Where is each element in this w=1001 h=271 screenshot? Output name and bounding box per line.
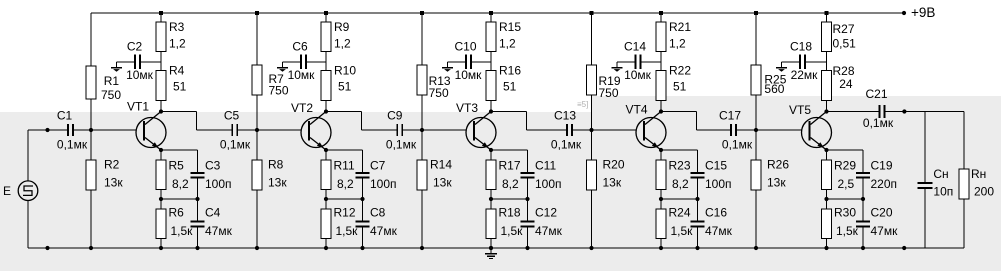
svg-text:0,1мк: 0,1мк (386, 137, 417, 151)
svg-text:47мк: 47мк (370, 224, 398, 238)
svg-text:C1: C1 (57, 109, 73, 123)
svg-text:560: 560 (764, 82, 784, 96)
svg-text:8,2: 8,2 (172, 177, 189, 191)
svg-text:VT5: VT5 (789, 103, 811, 117)
svg-text:Rн: Rн (971, 167, 986, 181)
svg-text:13к: 13к (433, 176, 452, 190)
svg-text:R1: R1 (104, 74, 120, 88)
svg-text:13к: 13к (767, 176, 786, 190)
svg-text:51: 51 (673, 79, 687, 93)
svg-text:R4: R4 (169, 64, 185, 78)
svg-text:10мк: 10мк (455, 68, 483, 82)
svg-text:R26: R26 (767, 158, 789, 172)
svg-text:2,5: 2,5 (838, 177, 855, 191)
svg-text:47мк: 47мк (205, 224, 233, 238)
svg-text:+9В: +9В (911, 5, 935, 20)
svg-text:8,2: 8,2 (502, 177, 519, 191)
svg-text:R21: R21 (669, 20, 691, 34)
svg-text:8,2: 8,2 (672, 177, 689, 191)
svg-text:1,5к: 1,5к (171, 224, 194, 238)
svg-text:1,5к: 1,5к (336, 224, 359, 238)
svg-text:C7: C7 (370, 158, 386, 172)
svg-text:750: 750 (269, 84, 289, 98)
svg-text:R9: R9 (334, 20, 350, 34)
svg-text:R27: R27 (833, 22, 855, 36)
svg-text:1,2: 1,2 (334, 36, 351, 50)
svg-text:Е: Е (3, 184, 11, 198)
svg-text:100п: 100п (205, 177, 232, 191)
svg-text:51: 51 (503, 79, 517, 93)
svg-text:R6: R6 (169, 206, 185, 220)
svg-text:0,1мк: 0,1мк (57, 137, 88, 151)
svg-text:R12: R12 (334, 206, 356, 220)
svg-text:0,1мк: 0,1мк (220, 137, 251, 151)
svg-text:1,2: 1,2 (169, 36, 186, 50)
svg-text:10мк: 10мк (126, 68, 154, 82)
svg-text:VT4: VT4 (626, 103, 648, 117)
svg-text:C19: C19 (871, 158, 893, 172)
svg-text:≡5]: ≡5] (577, 100, 588, 109)
svg-text:1,5к: 1,5к (836, 224, 859, 238)
svg-text:R3: R3 (169, 20, 185, 34)
svg-text:C21: C21 (865, 87, 887, 101)
svg-text:1,5к: 1,5к (671, 224, 694, 238)
svg-text:0,1мк: 0,1мк (551, 137, 582, 151)
svg-text:R23: R23 (669, 158, 691, 172)
svg-text:C12: C12 (535, 206, 557, 220)
svg-text:C18: C18 (790, 40, 812, 54)
svg-text:200: 200 (974, 185, 994, 199)
svg-text:C20: C20 (871, 206, 893, 220)
svg-text:24: 24 (839, 77, 853, 91)
svg-text:VT1: VT1 (127, 100, 149, 114)
svg-text:47мк: 47мк (535, 224, 563, 238)
svg-text:R16: R16 (499, 64, 521, 78)
svg-text:10мк: 10мк (288, 68, 316, 82)
svg-text:VT3: VT3 (456, 101, 478, 115)
svg-text:R30: R30 (834, 206, 856, 220)
svg-text:C4: C4 (205, 206, 221, 220)
svg-text:13к: 13к (603, 176, 622, 190)
svg-text:100п: 100п (705, 177, 732, 191)
svg-text:47мк: 47мк (871, 224, 899, 238)
svg-text:C6: C6 (292, 40, 308, 54)
svg-text:R15: R15 (499, 20, 521, 34)
svg-text:10п: 10п (933, 185, 953, 199)
svg-text:22мк: 22мк (791, 68, 819, 82)
svg-text:100п: 100п (535, 177, 562, 191)
svg-text:C15: C15 (705, 158, 727, 172)
svg-text:0,1мк: 0,1мк (722, 137, 753, 151)
svg-text:C16: C16 (705, 206, 727, 220)
svg-text:750: 750 (599, 86, 619, 100)
svg-text:R10: R10 (334, 64, 356, 78)
svg-text:Сн: Сн (933, 167, 948, 181)
svg-text:R29: R29 (834, 158, 856, 172)
svg-text:C3: C3 (205, 158, 221, 172)
svg-text:8,2: 8,2 (337, 177, 354, 191)
svg-text:C2: C2 (127, 40, 143, 54)
svg-text:13к: 13к (268, 176, 287, 190)
svg-text:R20: R20 (603, 158, 625, 172)
svg-text:13к: 13к (104, 176, 123, 190)
svg-text:C10: C10 (454, 40, 476, 54)
svg-text:1,2: 1,2 (499, 36, 516, 50)
svg-text:C14: C14 (624, 40, 646, 54)
svg-text:R11: R11 (334, 158, 355, 172)
svg-text:0,51: 0,51 (833, 36, 857, 50)
svg-text:R14: R14 (430, 158, 452, 172)
svg-text:750: 750 (429, 86, 449, 100)
svg-text:51: 51 (338, 79, 352, 93)
svg-text:1,5к: 1,5к (501, 224, 524, 238)
svg-text:R18: R18 (499, 206, 521, 220)
svg-text:VT2: VT2 (291, 101, 313, 115)
svg-text:C17: C17 (719, 109, 741, 123)
svg-text:R2: R2 (104, 158, 120, 172)
svg-text:R22: R22 (669, 64, 691, 78)
svg-text:0,1мк: 0,1мк (863, 116, 894, 130)
svg-text:C5: C5 (224, 109, 240, 123)
svg-text:100п: 100п (370, 177, 397, 191)
svg-text:1,2: 1,2 (669, 36, 686, 50)
svg-text:10мк: 10мк (624, 68, 652, 82)
svg-text:C13: C13 (554, 109, 576, 123)
svg-text:R28: R28 (833, 64, 855, 78)
svg-text:R5: R5 (169, 158, 185, 172)
svg-text:R24: R24 (669, 206, 691, 220)
svg-text:750: 750 (101, 88, 121, 102)
svg-text:R8: R8 (268, 158, 284, 172)
svg-text:C9: C9 (387, 109, 403, 123)
svg-text:51: 51 (173, 79, 187, 93)
svg-text:C11: C11 (535, 158, 556, 172)
svg-text:R17: R17 (499, 158, 521, 172)
svg-text:C8: C8 (370, 206, 386, 220)
svg-text:220п: 220п (871, 177, 898, 191)
svg-text:47мк: 47мк (705, 224, 733, 238)
